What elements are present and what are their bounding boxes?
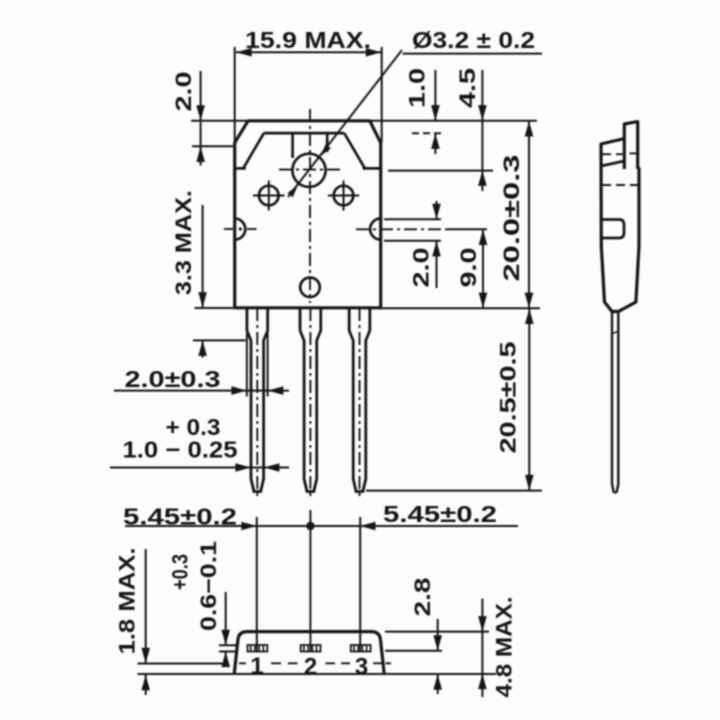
side view: side notch profile	[602, 220, 625, 239]
bottom view: seating plane line	[138, 673, 497, 675]
svg-text:2.0±0.3: 2.0±0.3	[125, 366, 221, 392]
svg-text:1.0 − 0.25: 1.0 − 0.25	[123, 437, 238, 463]
front view: left pilot hole with crosshair	[259, 186, 279, 206]
svg-text:20.5±0.5: 20.5±0.5	[496, 342, 521, 454]
bottom view: lead 1 cross-section (hatched)	[248, 645, 268, 652]
front view: right side notch (semicircle)	[370, 219, 381, 240]
svg-text:1: 1	[250, 653, 263, 680]
bottom view: lead 2 cross-section (hatched)	[301, 645, 321, 652]
svg-text:+0.3: +0.3	[168, 554, 193, 590]
bottom view: top edge extension line (right)	[385, 631, 489, 633]
bottom view: package base outline	[234, 632, 384, 674]
svg-text:4.8 MAX.: 4.8 MAX.	[492, 597, 517, 698]
svg-text:3: 3	[355, 654, 368, 681]
front view: mounting hole leader line with arrows	[288, 50, 402, 197]
front view: left side notch (semicircle)	[235, 219, 246, 240]
lead tip extension line (right)	[366, 490, 542, 492]
front view: mold cap step lines	[264, 132, 344, 135]
svg-text:2: 2	[304, 654, 317, 681]
hole centreline extension (right)	[388, 170, 493, 172]
side view: front face slant line	[601, 161, 624, 166]
front view: mounting hole horizontal centerline	[279, 169, 343, 171]
body bottom edge extension line (left and right)	[195, 307, 235, 309]
lead 2 (front view) with centerline	[300, 308, 321, 492]
side view: body outline	[601, 139, 639, 312]
front view: cap notch verticals above mounting hole	[291, 133, 294, 158]
svg-text:2.0: 2.0	[171, 72, 196, 112]
side view: lower dashed line	[602, 184, 639, 186]
front view: lower pilot hole	[300, 278, 320, 298]
lead centre extension lines down to bottom view	[256, 517, 258, 652]
svg-text:2.0: 2.0	[409, 248, 434, 288]
svg-text:2.8: 2.8	[410, 578, 435, 617]
side view: upper dashed line	[602, 153, 623, 155]
front view: package body outline	[235, 121, 381, 308]
svg-text:15.9 MAX.: 15.9 MAX.	[245, 27, 371, 53]
lead pitch dimension line with arrows and centre dot	[125, 525, 518, 527]
front view: right pilot hole with crosshair	[334, 186, 354, 206]
bottom view: lead underside extension line (right)	[385, 650, 442, 652]
svg-text:3.3 MAX.: 3.3 MAX.	[171, 190, 196, 295]
body top edge extension line (right)	[370, 120, 537, 122]
side view: lead	[612, 312, 614, 493]
side view: metal tab	[624, 122, 637, 169]
svg-text:0.6−0.1: 0.6−0.1	[196, 541, 221, 631]
svg-text:5.45±0.2: 5.45±0.2	[383, 501, 497, 527]
bottom view: lead 3 cross-section (hatched)	[351, 645, 371, 652]
lead 3 (front view) with centerline	[349, 308, 370, 492]
front view: vertical centerline	[309, 109, 311, 303]
svg-text:9.0: 9.0	[456, 248, 481, 288]
svg-text:4.5: 4.5	[455, 68, 480, 108]
bottom view: pin number centreline with dashes	[239, 662, 246, 664]
front view: mounting hole (dia 3.2)	[292, 154, 325, 187]
side notch extension lines (right)	[384, 218, 441, 220]
svg-text:Ø3.2 ± 0.2: Ø3.2 ± 0.2	[412, 27, 535, 53]
svg-text:1.8 MAX.: 1.8 MAX.	[115, 548, 140, 655]
lead 1 (front view) with centerline	[247, 308, 268, 492]
svg-text:1.0: 1.0	[405, 68, 430, 108]
svg-text:20.0±0.3: 20.0±0.3	[499, 155, 524, 282]
